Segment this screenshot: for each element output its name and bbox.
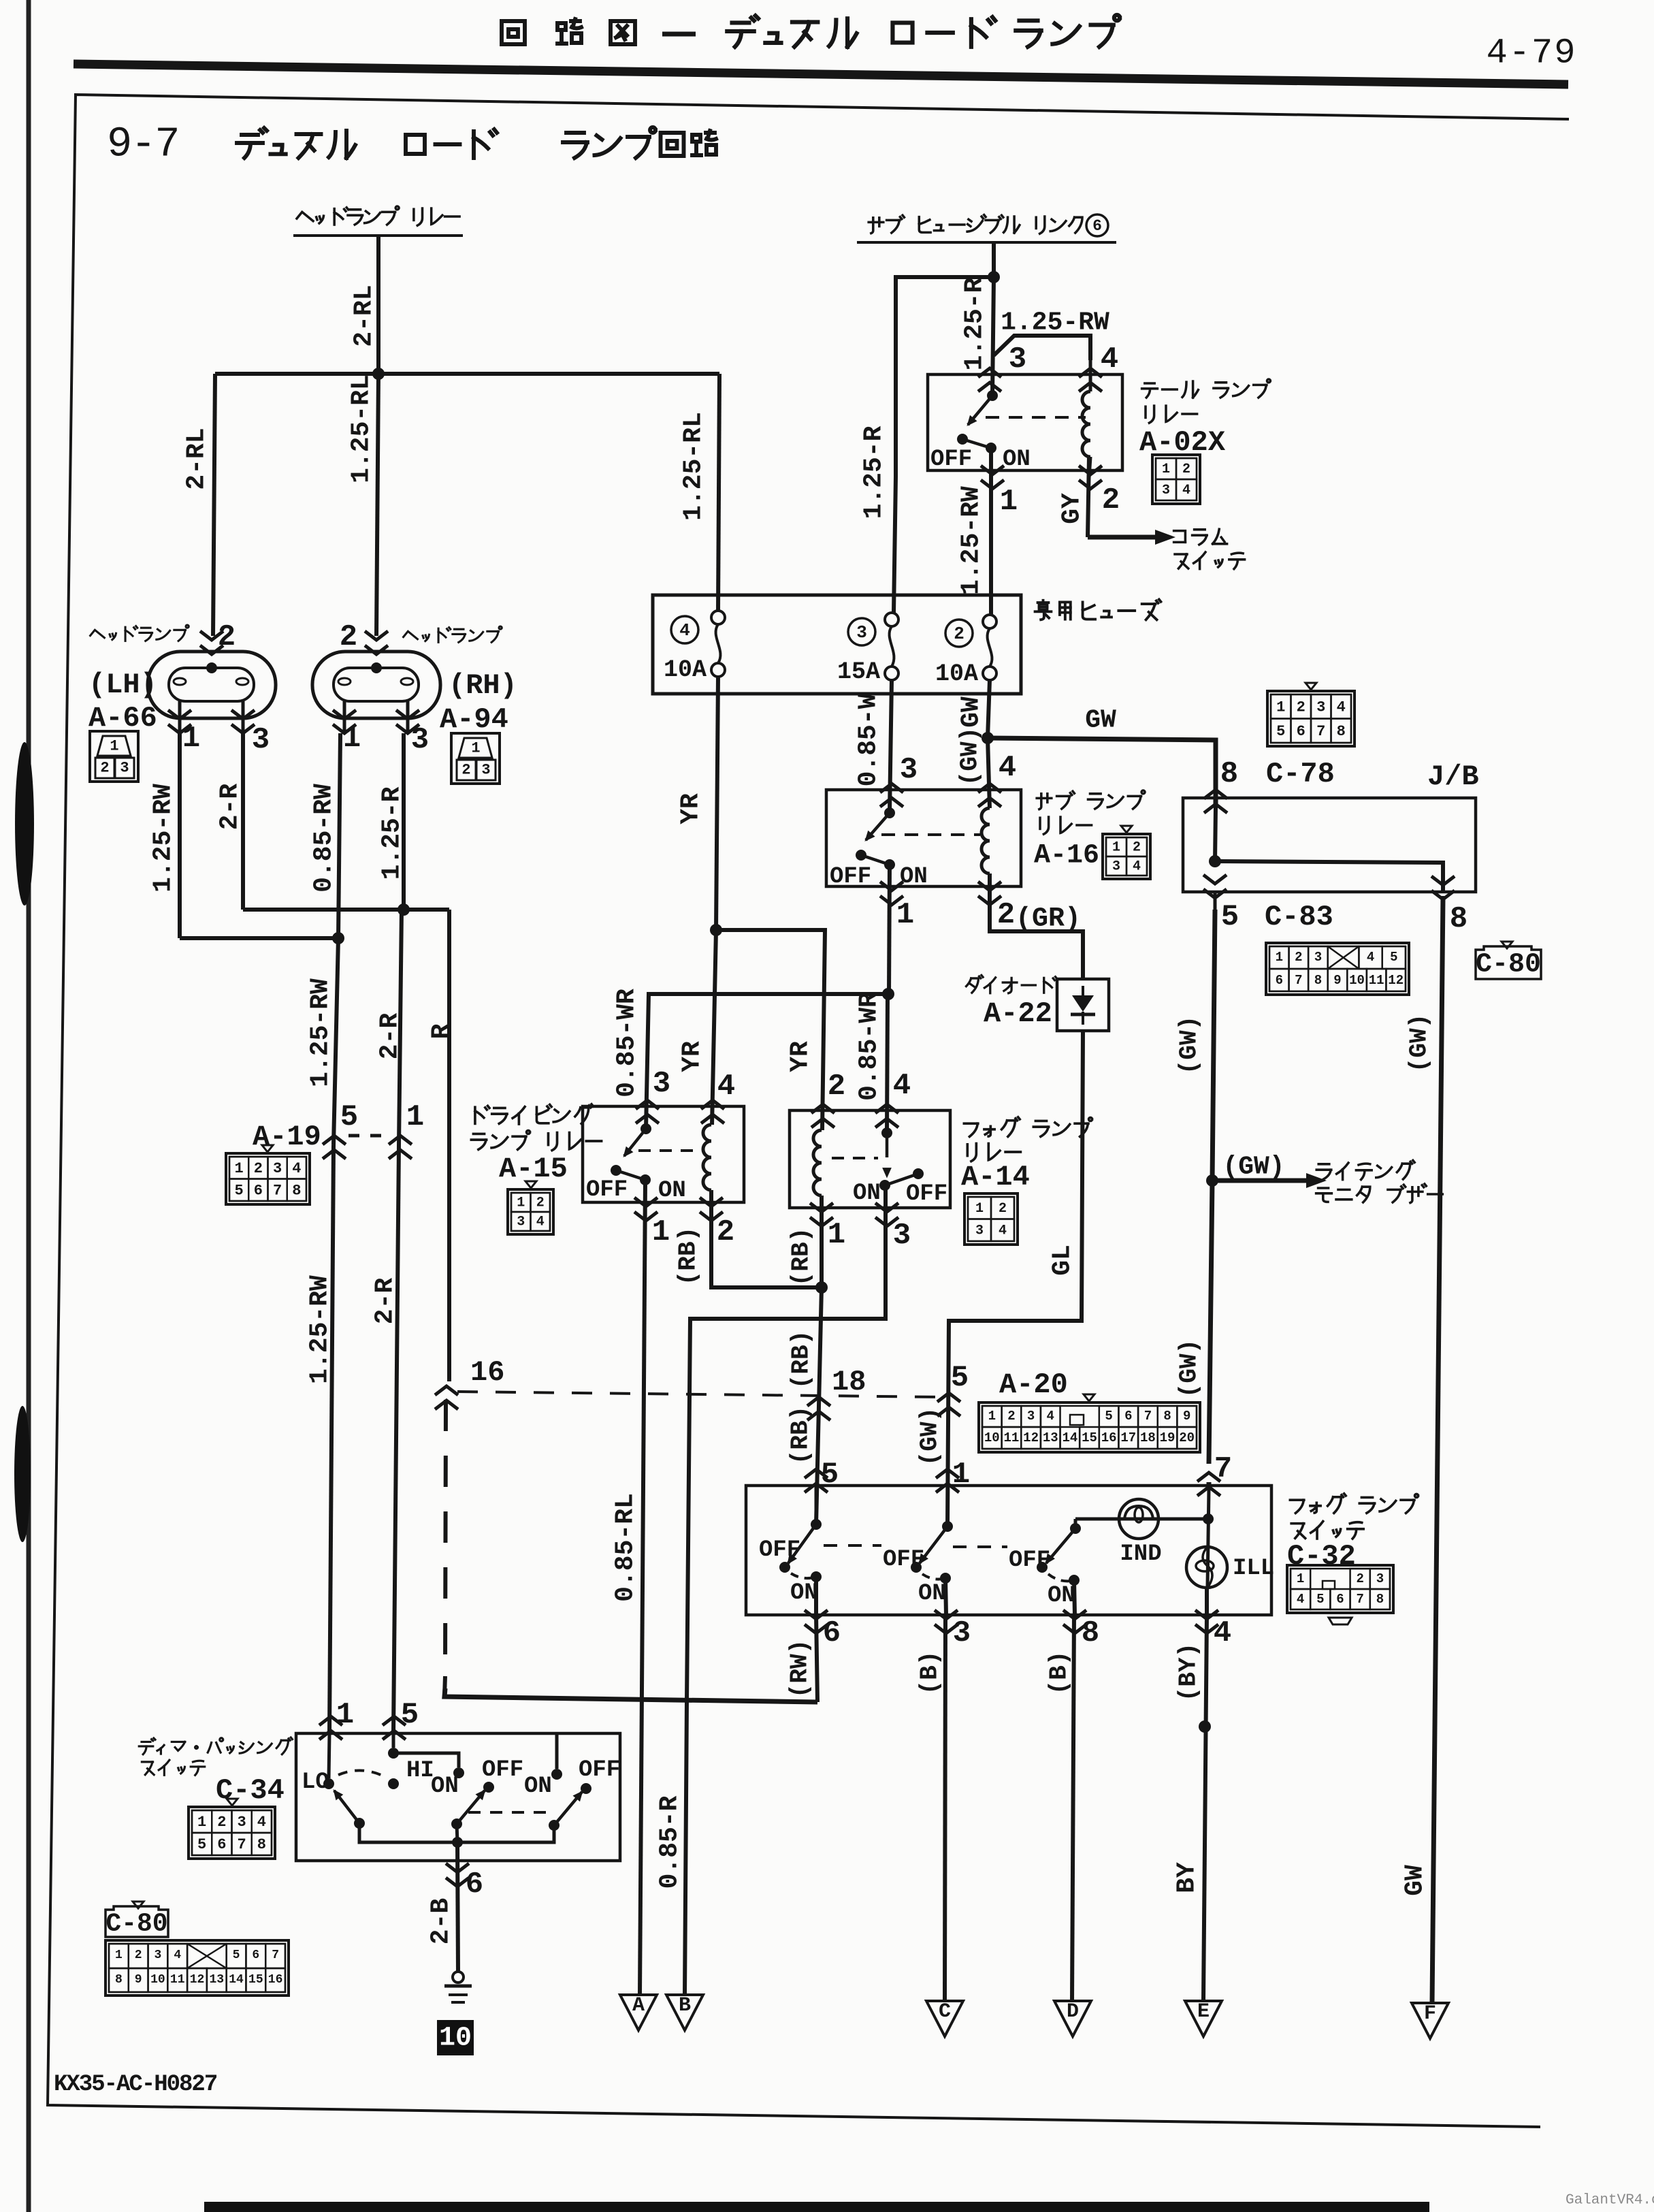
svg-text:6: 6	[1092, 217, 1102, 235]
svg-text:1: 1	[406, 1100, 424, 1134]
svg-text:1: 1	[896, 898, 914, 932]
svg-text:1: 1	[115, 1949, 123, 1962]
gang dashed fog switch	[824, 1544, 881, 1547]
svg-text:16: 16	[470, 1356, 504, 1389]
svg-text:J/B: J/B	[1427, 760, 1479, 793]
svg-text:4: 4	[893, 1069, 911, 1103]
svg-text:A: A	[632, 1994, 645, 2017]
ground E	[1185, 2001, 1222, 2036]
wire R branch down	[447, 910, 451, 1381]
wire 1.25-RW to C-34	[329, 1145, 334, 1733]
svg-text:(RW): (RW)	[786, 1639, 814, 1698]
wire GW to A-16 pin4	[988, 738, 990, 808]
svg-text:1: 1	[336, 1698, 354, 1732]
relay A-14 coil	[813, 1130, 822, 1196]
wire dashed 16 down	[445, 1400, 446, 1676]
svg-text:1: 1	[1276, 950, 1283, 965]
svg-text:1: 1	[1276, 699, 1285, 716]
junction YR	[710, 924, 722, 936]
svg-text:D: D	[1067, 2000, 1079, 2023]
relay A-02X pin1	[981, 466, 1004, 475]
svg-text:1: 1	[110, 738, 118, 755]
svg-text:8: 8	[1337, 723, 1346, 740]
svg-text:4: 4	[679, 620, 690, 641]
svg-text:12: 12	[1023, 1430, 1039, 1445]
svg-text:GW: GW	[957, 696, 986, 728]
ground B	[666, 1995, 703, 2030]
wire IND to pin7 wire	[1203, 1513, 1214, 1524]
dimmer arm3	[549, 1820, 560, 1831]
relay A-02X switch	[987, 390, 998, 401]
svg-text:GY: GY	[1058, 493, 1087, 524]
dimmer gang dashed	[468, 1811, 549, 1814]
lamp RH	[365, 631, 388, 640]
svg-text:(GW): (GW)	[1222, 1153, 1284, 1182]
connector C-80 label box	[133, 1902, 144, 1908]
svg-text:3: 3	[411, 723, 429, 757]
svg-text:8: 8	[1314, 973, 1322, 988]
dashed gang line A-20	[457, 1392, 941, 1397]
fog switch pole 3	[1070, 1523, 1081, 1534]
svg-text:YR: YR	[678, 1041, 707, 1072]
wire B to ground C	[945, 1615, 945, 2001]
svg-text:7: 7	[1356, 1592, 1363, 1607]
svg-text:4: 4	[717, 1070, 735, 1104]
svg-text:2: 2	[254, 1160, 263, 1177]
svg-text:(GW): (GW)	[956, 727, 984, 786]
wire to fuse 4 1.25-RL	[718, 374, 719, 611]
svg-text:6: 6	[1276, 973, 1283, 988]
svg-text:16: 16	[1101, 1430, 1117, 1445]
wire YR to A-15 pin4	[712, 930, 716, 1125]
svg-text:1.25-RW: 1.25-RW	[149, 784, 178, 893]
svg-text:4: 4	[174, 1949, 181, 1962]
svg-text:20: 20	[1179, 1430, 1195, 1445]
junction lighting monitor	[1206, 1174, 1218, 1187]
wire junction horizontal	[215, 372, 719, 376]
svg-text:1: 1	[1162, 462, 1170, 477]
svg-text:5: 5	[1316, 1592, 1324, 1607]
svg-text:2: 2	[135, 1949, 142, 1962]
wire YR from fuse4	[716, 677, 718, 930]
svg-text:6: 6	[1124, 1409, 1132, 1424]
svg-text:15: 15	[248, 1973, 263, 1987]
ground D	[1054, 2001, 1091, 2036]
svg-text:13: 13	[209, 1973, 224, 1987]
fuse box 専用ヒューズ	[653, 595, 1021, 694]
svg-text:R: R	[427, 1023, 457, 1039]
fog switch pole 2	[942, 1521, 953, 1532]
svg-text:2: 2	[828, 1070, 845, 1104]
svg-text:2: 2	[1102, 483, 1120, 517]
svg-text:5: 5	[1390, 950, 1397, 965]
svg-text:8: 8	[1376, 1592, 1384, 1607]
fog lamp relay A-14 box	[790, 1110, 950, 1208]
svg-text:6: 6	[1297, 723, 1306, 740]
svg-text:2: 2	[340, 620, 357, 654]
connector icon C-83	[1266, 943, 1409, 995]
svg-text:2-R: 2-R	[376, 1013, 405, 1060]
wire to RH headlamp 1.25-RL	[376, 374, 378, 636]
ground A	[620, 1995, 657, 2030]
svg-text:8: 8	[1163, 1409, 1171, 1424]
dimmer LO HI contacts	[388, 1778, 399, 1789]
wire RB from A-15 pin2	[711, 1190, 822, 1287]
svg-text:2: 2	[217, 1814, 226, 1831]
svg-text:ON: ON	[658, 1178, 686, 1204]
svg-text:OFF: OFF	[759, 1537, 800, 1563]
svg-text:18: 18	[832, 1366, 866, 1398]
svg-text:9: 9	[1183, 1409, 1190, 1424]
svg-text:(BY): (BY)	[1175, 1643, 1203, 1701]
svg-text:7: 7	[1144, 1409, 1152, 1424]
svg-text:ON: ON	[1048, 1583, 1075, 1609]
relay A-15 pin1	[634, 1198, 658, 1206]
junction 0.85-WR	[882, 988, 894, 1000]
svg-text:0.85-WR: 0.85-WR	[855, 992, 884, 1101]
svg-text:3: 3	[856, 622, 867, 643]
svg-text:2: 2	[100, 760, 109, 777]
relay A-16 pin1	[880, 882, 903, 891]
svg-text:2: 2	[997, 898, 1015, 932]
svg-text:3: 3	[953, 1616, 971, 1650]
svg-text:C-34: C-34	[216, 1774, 285, 1807]
svg-text:2: 2	[536, 1196, 545, 1211]
relay A-16 switch	[884, 807, 895, 818]
svg-text:GW: GW	[1401, 1865, 1430, 1896]
dimmer arm2	[451, 1818, 462, 1829]
connector icon A-66	[90, 731, 138, 782]
wire 2-R to C-34	[393, 1145, 399, 1733]
svg-text:2: 2	[717, 1215, 734, 1249]
svg-text:2: 2	[999, 1201, 1007, 1217]
svg-text:5: 5	[401, 1698, 419, 1732]
svg-text:3: 3	[252, 723, 270, 757]
svg-text:10: 10	[984, 1430, 1000, 1445]
svg-text:12: 12	[1388, 973, 1404, 988]
svg-text:6: 6	[466, 1868, 483, 1902]
svg-text:(RB): (RB)	[788, 1228, 815, 1286]
svg-text:C: C	[939, 2000, 951, 2023]
svg-text:E: E	[1197, 2000, 1210, 2023]
svg-text:1: 1	[652, 1215, 670, 1249]
dimmer switch box C-34	[296, 1733, 620, 1861]
svg-text:2: 2	[1007, 1409, 1015, 1424]
svg-text:10A: 10A	[935, 660, 978, 688]
relay A-15 coil	[703, 1125, 711, 1190]
relay A-16 labels	[1037, 790, 1145, 810]
svg-text:6: 6	[1336, 1592, 1344, 1607]
wire RH pin1 0.85-RW	[338, 733, 340, 938]
wire 1.25-R down to relay pin3	[992, 277, 994, 396]
wire 0.85-WR to A-14 pin4	[887, 994, 888, 1133]
svg-text:0.85-R: 0.85-R	[655, 1795, 685, 1889]
svg-text:5: 5	[340, 1100, 358, 1134]
svg-text:IND: IND	[1120, 1541, 1161, 1567]
svg-text:4: 4	[292, 1160, 301, 1177]
svg-text:4: 4	[536, 1215, 545, 1230]
svg-text:3: 3	[1009, 342, 1026, 376]
svg-text:15: 15	[1082, 1430, 1097, 1445]
svg-text:8: 8	[1220, 757, 1238, 791]
svg-text:9: 9	[135, 1973, 142, 1987]
svg-text:9: 9	[1333, 973, 1341, 988]
svg-text:7: 7	[1316, 723, 1325, 740]
svg-text:5: 5	[1105, 1409, 1112, 1424]
sub lamp relay A-16 box	[826, 790, 1021, 886]
svg-text:1: 1	[988, 1409, 996, 1424]
ground ref 10	[437, 2020, 474, 2055]
svg-text:B: B	[679, 1994, 691, 2017]
svg-text:15A: 15A	[837, 658, 880, 686]
connector icon A-19	[262, 1145, 273, 1152]
relay A-14 pin3	[875, 1203, 898, 1212]
connector icon C-34	[227, 1799, 238, 1806]
svg-text:6: 6	[254, 1182, 263, 1199]
IND lamp	[1074, 1519, 1077, 1528]
connector icon A-94	[451, 733, 500, 784]
svg-text:2: 2	[218, 620, 236, 654]
connector icon C-80 16pin	[106, 1940, 289, 1995]
relay A-14 switch	[881, 1127, 892, 1138]
svg-text:2: 2	[1182, 462, 1190, 477]
svg-text:A-66: A-66	[88, 702, 157, 735]
svg-text:8: 8	[292, 1182, 301, 1199]
svg-text:4: 4	[999, 1223, 1007, 1238]
dimmer switch labels	[139, 1737, 292, 1754]
wire RB down junction	[820, 1196, 824, 1287]
svg-text:3: 3	[653, 1067, 670, 1101]
svg-text:1: 1	[1112, 840, 1120, 856]
svg-text:3: 3	[1027, 1409, 1035, 1424]
wire 2-R down	[399, 910, 402, 1145]
svg-text:3: 3	[893, 1219, 911, 1253]
svg-text:18: 18	[1140, 1430, 1156, 1445]
fuse 3 15A	[885, 613, 898, 626]
svg-text:A-19: A-19	[253, 1121, 321, 1153]
svg-text:1: 1	[975, 1201, 984, 1217]
svg-text:(GW): (GW)	[1175, 1016, 1203, 1074]
connector icon A-02X	[1152, 455, 1200, 504]
svg-text:17: 17	[1120, 1430, 1136, 1445]
wire junction R net	[243, 908, 449, 912]
fog lamp switch box	[746, 1486, 1271, 1615]
svg-text:4: 4	[1133, 859, 1141, 875]
svg-text:(RB): (RB)	[788, 1330, 815, 1389]
svg-text:1.25-RW: 1.25-RW	[306, 1275, 335, 1384]
svg-text:4: 4	[1182, 483, 1190, 498]
fuse 2 10A	[983, 615, 996, 628]
svg-text:8: 8	[115, 1973, 123, 1987]
lamp LH	[200, 631, 223, 640]
bottom scan bar	[204, 2202, 1429, 2212]
diode A-22	[1057, 979, 1109, 1031]
svg-text:A-14: A-14	[961, 1161, 1030, 1193]
connector C-80 right	[1502, 942, 1512, 948]
svg-text:2-R: 2-R	[371, 1278, 400, 1325]
svg-text:5: 5	[197, 1836, 206, 1853]
connector A-19 break	[323, 1136, 346, 1144]
svg-text:LO: LO	[302, 1769, 329, 1795]
svg-text:1: 1	[197, 1814, 206, 1831]
wire BY to ground E	[1203, 1615, 1207, 2001]
svg-text:1.25-RW: 1.25-RW	[306, 978, 336, 1087]
svg-text:KX35-AC-H0827: KX35-AC-H0827	[54, 2072, 217, 2098]
svg-text:1: 1	[235, 1160, 244, 1177]
svg-text:6: 6	[252, 1949, 259, 1962]
svg-text:3: 3	[120, 760, 129, 777]
tail lamp relay A-02X box	[928, 374, 1122, 470]
wire 1.25-R to fuse 3	[894, 277, 994, 613]
wire 1.25-RW diagonal to pin4	[994, 336, 1090, 360]
svg-text:3: 3	[155, 1949, 162, 1962]
relay A-15 pin2	[700, 1198, 723, 1206]
svg-text:3: 3	[975, 1223, 984, 1238]
wire GW to fog pin7	[1209, 1181, 1212, 1464]
dimmer output 6	[457, 1842, 458, 1972]
svg-text:4: 4	[1367, 950, 1374, 965]
relay A-16 pin2 GR	[978, 882, 1001, 891]
relay A-02X coil	[1089, 360, 1092, 391]
dimmer arm1	[334, 1791, 359, 1823]
svg-text:10: 10	[1349, 973, 1365, 988]
ground C	[926, 2001, 963, 2036]
svg-text:ON: ON	[918, 1581, 946, 1607]
svg-text:C-78: C-78	[1266, 758, 1335, 790]
connector icon A-15	[525, 1181, 536, 1188]
wire B to ground D	[1072, 1615, 1074, 2001]
connector icon A-14	[964, 1193, 1018, 1245]
svg-text:13: 13	[1043, 1430, 1058, 1445]
tail lamp relay labels	[1142, 379, 1271, 398]
svg-text:4: 4	[1337, 699, 1346, 716]
connector icon A-16	[1121, 826, 1132, 833]
svg-text:F: F	[1424, 2002, 1436, 2025]
svg-text:8: 8	[257, 1836, 266, 1853]
svg-text:0.85-W: 0.85-W	[854, 693, 883, 786]
svg-text:5: 5	[235, 1182, 244, 1199]
svg-text:1.25-RL: 1.25-RL	[347, 374, 376, 483]
svg-text:(B): (B)	[916, 1651, 944, 1695]
J/B box	[1183, 798, 1476, 892]
fuse 4 10A	[711, 611, 725, 624]
svg-text:OFF: OFF	[830, 864, 871, 890]
svg-text:1.25-R: 1.25-R	[378, 786, 407, 880]
connector A-20 pin5	[937, 1393, 960, 1402]
relay A-15 labels	[475, 1104, 594, 1124]
svg-text:3: 3	[517, 1215, 525, 1230]
svg-text:3: 3	[1112, 859, 1120, 875]
svg-text:7: 7	[238, 1836, 246, 1853]
wire RH pin3 1.25-R	[402, 733, 406, 910]
svg-text:OFF: OFF	[1009, 1548, 1050, 1573]
svg-text:7: 7	[273, 1182, 282, 1199]
svg-text:A-16: A-16	[1034, 841, 1099, 871]
svg-text:C-83: C-83	[1265, 901, 1333, 933]
svg-text:11: 11	[1369, 973, 1384, 988]
svg-text:5: 5	[951, 1361, 969, 1395]
svg-text:10A: 10A	[664, 656, 707, 684]
relay A-16 coil	[982, 808, 990, 873]
J/B interior	[1215, 807, 1216, 861]
svg-text:3: 3	[900, 753, 918, 787]
svg-text:9-7: 9-7	[107, 121, 179, 169]
svg-text:ILL: ILL	[1233, 1556, 1274, 1582]
svg-text:2: 2	[954, 624, 964, 644]
svg-text:OFF: OFF	[579, 1757, 620, 1783]
svg-text:8: 8	[1082, 1616, 1099, 1650]
svg-text:6: 6	[217, 1836, 226, 1853]
svg-text:1.25-R: 1.25-R	[960, 277, 990, 370]
svg-text:4: 4	[1297, 1592, 1304, 1607]
svg-text:2-RL: 2-RL	[350, 285, 379, 347]
svg-text:3: 3	[238, 1814, 246, 1831]
wire GW from fuse2	[988, 680, 990, 738]
svg-text:3: 3	[1316, 699, 1325, 716]
dimmer switch3 feed	[555, 1735, 559, 1769]
svg-text:0.85-RL: 0.85-RL	[611, 1493, 640, 1602]
svg-text:HI: HI	[406, 1758, 434, 1784]
wire GW JB down	[1212, 910, 1215, 1181]
dimmer rail	[359, 1823, 554, 1842]
svg-text:OFF: OFF	[482, 1757, 523, 1783]
svg-text:OFF: OFF	[906, 1181, 947, 1207]
svg-text:16: 16	[268, 1973, 283, 1987]
connector A-20 pin16	[435, 1386, 458, 1395]
node headlamp relay label	[297, 206, 459, 225]
svg-text:3: 3	[1376, 1571, 1384, 1586]
svg-text:OFF: OFF	[883, 1547, 924, 1573]
junction GW	[982, 732, 994, 744]
svg-text:(GW): (GW)	[916, 1407, 944, 1466]
driving lamp relay A-15 box	[583, 1106, 744, 1202]
svg-text:ON: ON	[1003, 447, 1031, 472]
svg-text:3: 3	[481, 762, 490, 779]
svg-text:12: 12	[190, 1973, 205, 1987]
svg-text:7: 7	[1295, 973, 1302, 988]
wire 0.85-WR to A-15 pin3	[646, 994, 888, 1129]
dimmer interior	[329, 1733, 329, 1778]
svg-text:7: 7	[1214, 1452, 1232, 1486]
svg-text:4: 4	[1101, 342, 1118, 376]
node sub fusible link label	[869, 215, 1082, 234]
svg-text:2: 2	[461, 762, 470, 779]
svg-text:2: 2	[1356, 1571, 1363, 1586]
svg-text:1: 1	[471, 740, 480, 757]
svg-text:19: 19	[1160, 1430, 1175, 1445]
svg-text:11: 11	[170, 1973, 185, 1987]
svg-text:5: 5	[1221, 900, 1239, 934]
svg-text:OFF: OFF	[586, 1177, 628, 1203]
svg-text:4: 4	[1047, 1409, 1054, 1424]
svg-text:1.25-RW: 1.25-RW	[957, 486, 986, 595]
svg-text:ON: ON	[790, 1580, 818, 1606]
wire YR branch to A-14 pin2	[716, 930, 825, 1130]
fog switch labels	[1290, 1494, 1418, 1513]
svg-text:5: 5	[1276, 723, 1285, 740]
svg-text:2-B: 2-B	[427, 1898, 456, 1944]
svg-text:YR: YR	[786, 1041, 815, 1072]
svg-text:(RB): (RB)	[787, 1406, 815, 1464]
svg-text:1: 1	[1297, 1571, 1304, 1586]
arrow to column switch	[1088, 535, 1155, 540]
relay A-14 labels	[964, 1117, 1092, 1137]
svg-text:(RB): (RB)	[675, 1227, 702, 1285]
svg-text:ON: ON	[431, 1774, 459, 1799]
connector A-20 pin18	[807, 1397, 830, 1406]
ground symbol	[453, 1972, 464, 1983]
wire 1.25-RW junction	[180, 936, 338, 940]
